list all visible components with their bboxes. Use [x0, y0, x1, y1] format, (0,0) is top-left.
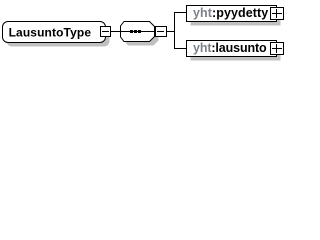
sequence mid line	[120, 31, 155, 32]
element yht:pyydetty box	[187, 6, 277, 22]
plus sign of yht:lausunto vertical	[276, 44, 277, 53]
sequence dot 3	[138, 30, 141, 33]
svg-text:yht:pyydetty: yht:pyydetty	[193, 6, 268, 20]
sequence compositor shadow	[125, 26, 159, 46]
element LausuntoType shadow	[7, 26, 110, 47]
element yht:lausunto shadow	[191, 45, 281, 61]
plus sign of yht:pyydetty horizontal	[272, 13, 282, 14]
wire stub to yht:pyydetty	[174, 12, 186, 13]
expand box (minus) of LausuntoType	[101, 27, 111, 37]
wire stub to yht:lausunto	[174, 48, 186, 49]
wire from sequence expand box to branch junction	[167, 31, 175, 32]
sequence dot 2	[134, 30, 137, 33]
element yht:lausunto box	[187, 41, 277, 57]
expand box (plus) of yht:pyydetty	[271, 8, 284, 20]
minus sign of LausuntoType expand box	[102, 31, 109, 32]
vertical branch wire	[174, 12, 175, 49]
element yht:pyydetty shadow	[191, 10, 281, 26]
svg-text:LausuntoType: LausuntoType	[9, 26, 92, 40]
expand box (plus) of yht:lausunto	[271, 43, 284, 55]
element LausuntoType box	[3, 22, 106, 43]
wire from LausuntoType expand box to sequence	[111, 31, 120, 32]
svg-text:yht:lausunto: yht:lausunto	[193, 41, 267, 55]
sequence compositor octagon	[121, 22, 155, 42]
plus sign of yht:pyydetty vertical	[276, 9, 277, 18]
minus sign after sequence	[157, 31, 164, 32]
expand box (minus) after sequence	[156, 27, 167, 37]
sequence dot 1	[130, 30, 133, 33]
plus sign of yht:lausunto horizontal	[272, 48, 282, 49]
